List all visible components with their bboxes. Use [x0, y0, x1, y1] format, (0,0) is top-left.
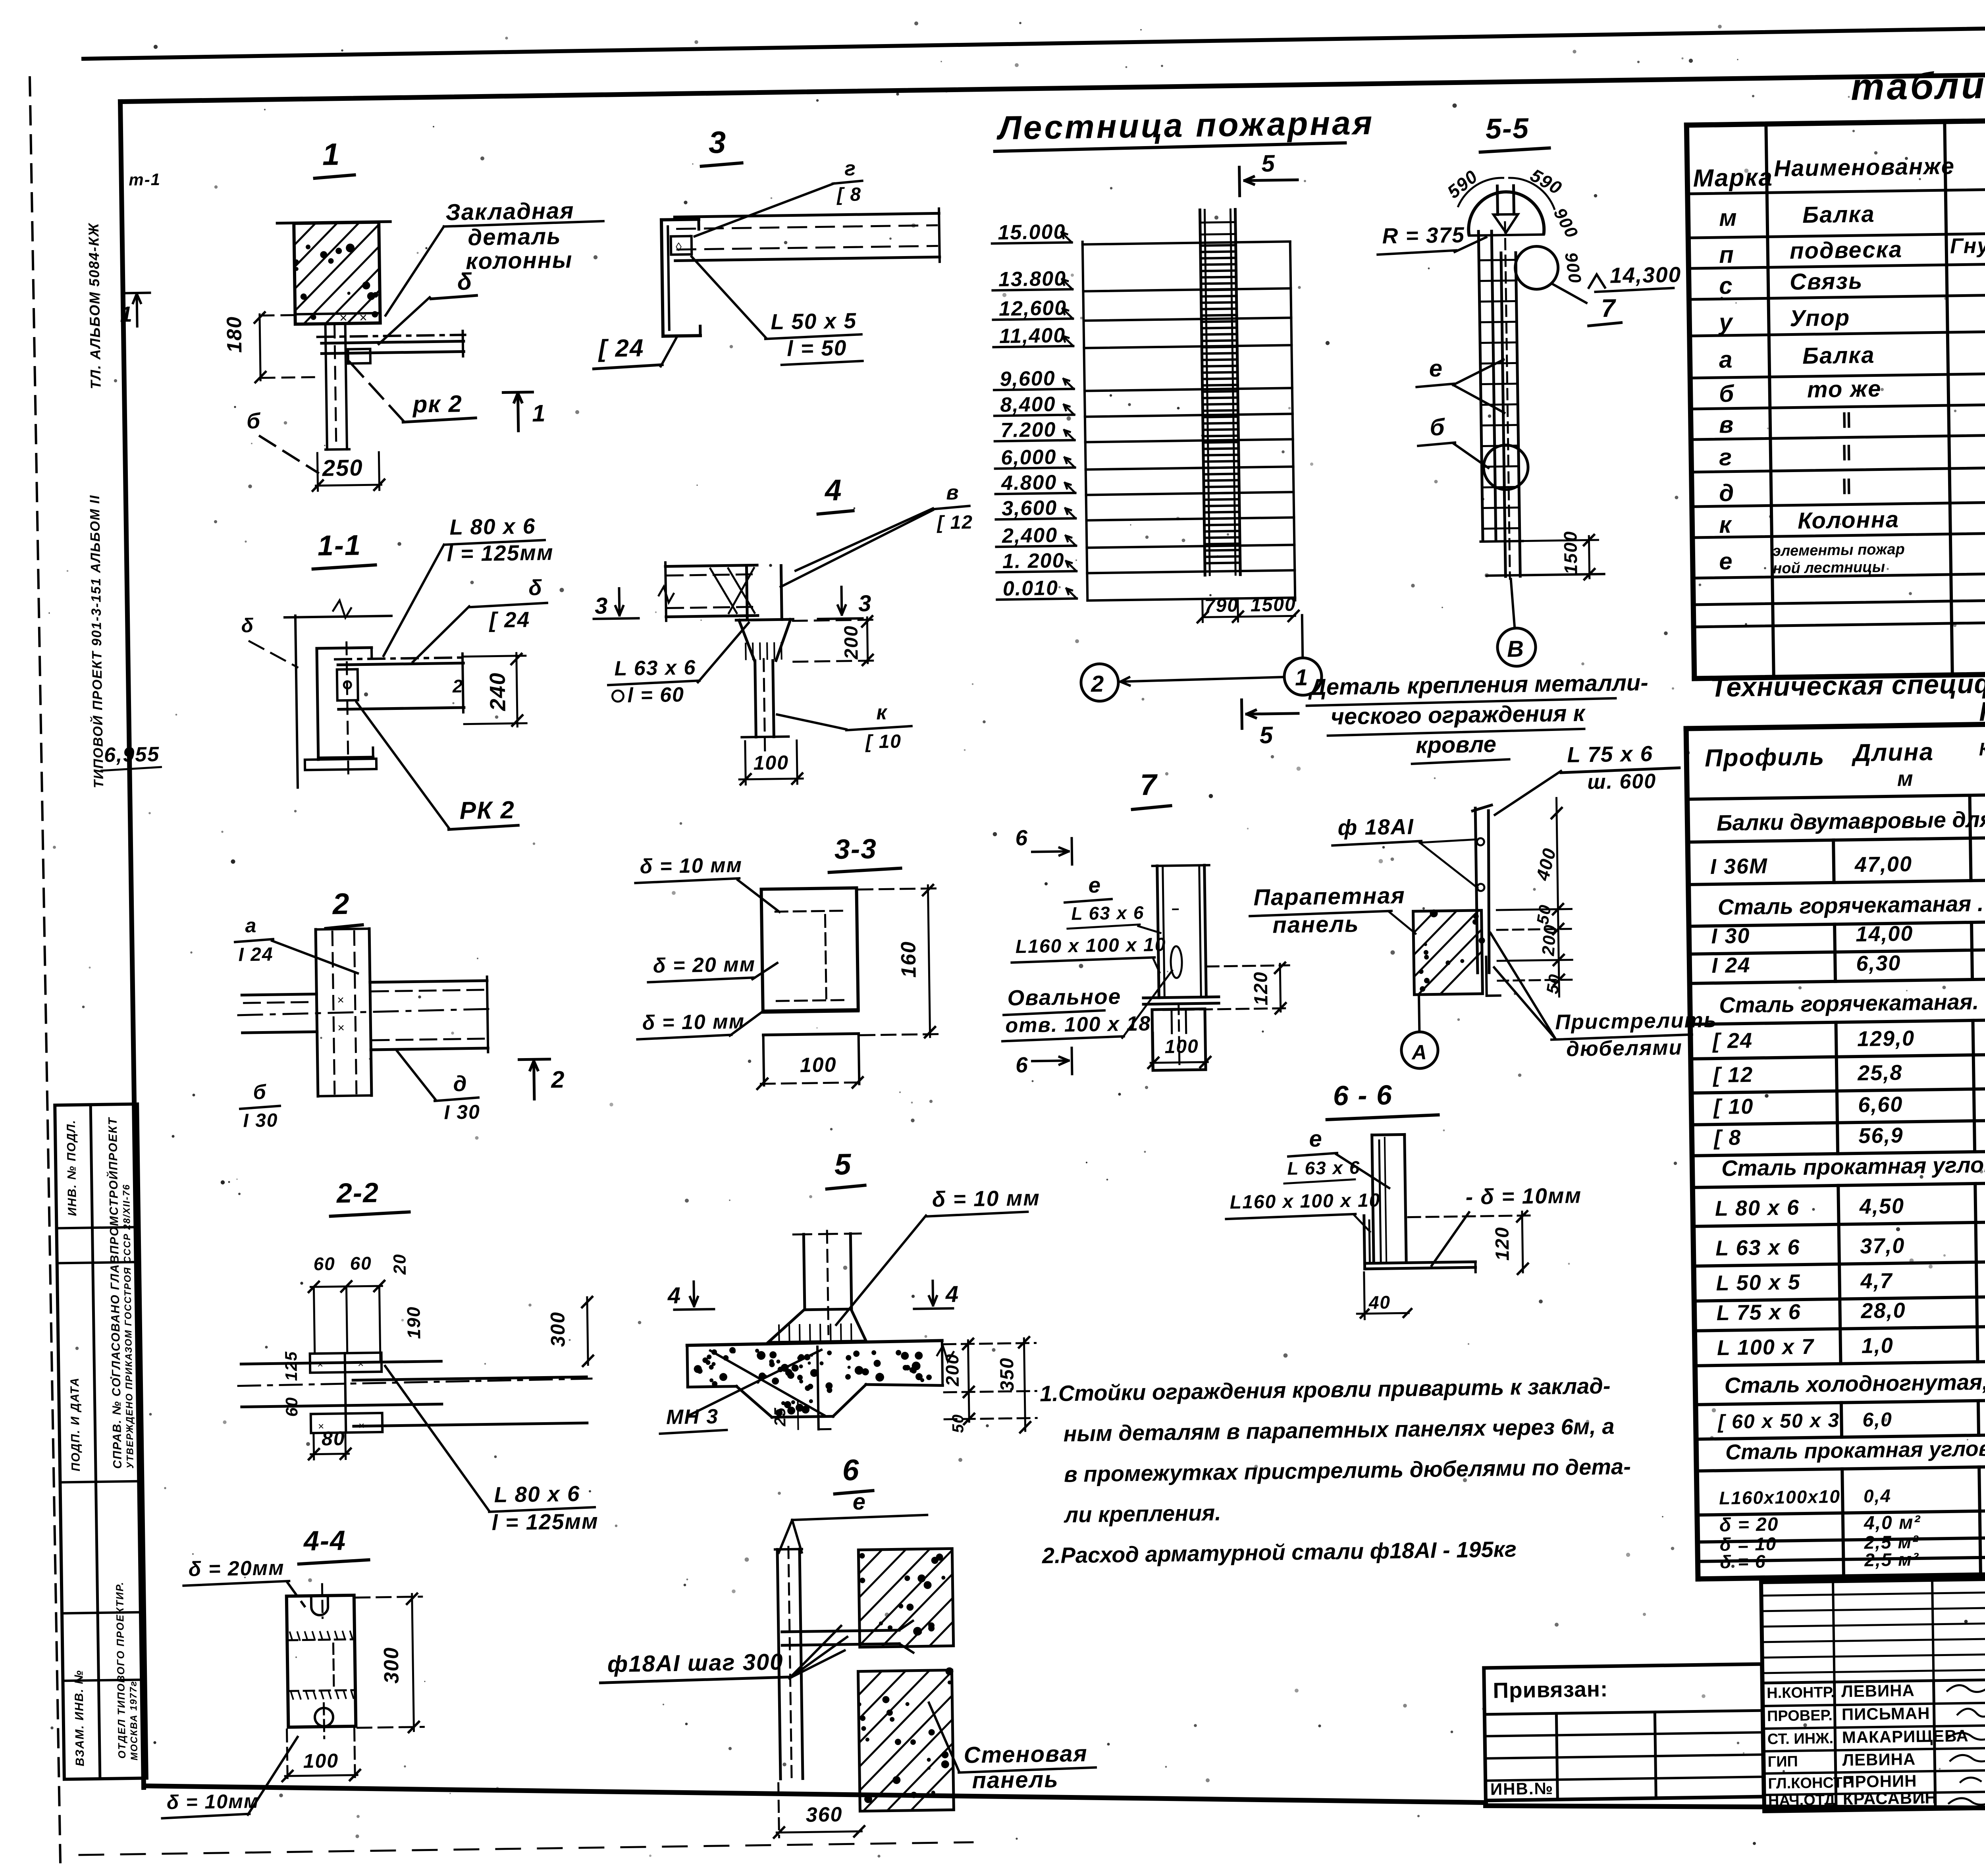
svg-text:[ 24: [ 24 [488, 607, 530, 632]
svg-text:60: 60 [282, 1396, 301, 1417]
frame top line [120, 67, 1985, 102]
detail 5-5 label e [1416, 354, 1504, 414]
detail A upright bar L75x6 [1472, 805, 1500, 996]
detail 2-2 rotated dims left [281, 1351, 301, 1417]
svg-text:×: × [337, 994, 345, 1007]
detail 5 dims right [941, 1337, 1037, 1433]
svg-text:б: б [1719, 380, 1735, 407]
detail 5-5 arc dims 590 900 [1443, 164, 1585, 287]
detail 5-5 bottom lines [1480, 530, 1604, 581]
svg-text:1: 1 [1295, 665, 1309, 690]
svg-text:25: 25 [771, 1407, 789, 1427]
detail 1 label delta [378, 268, 477, 344]
detail 2 left beam [242, 994, 317, 1033]
detail 7 label oval hole [1002, 970, 1173, 1041]
svg-text:×: × [317, 1358, 324, 1370]
svg-text:РК 2: РК 2 [459, 796, 515, 825]
svg-text:м: м [1719, 204, 1738, 231]
detail 1-1 left edge and top line [284, 600, 394, 788]
detail 5 column [793, 1230, 862, 1334]
detail 1 beam [318, 331, 466, 358]
detail 3-3 label delta20 [648, 952, 777, 982]
detail 2 title [325, 887, 362, 928]
detail 6-6 upright angle [1372, 1134, 1406, 1263]
svg-text:6,30: 6,30 [1856, 951, 1901, 976]
svg-text:L 63 х 6: L 63 х 6 [1071, 902, 1145, 924]
svg-text:120: 120 [1492, 1226, 1513, 1261]
svg-text:L 63 x 6: L 63 x 6 [614, 656, 696, 680]
svg-text:Стеновая: Стеновая [964, 1741, 1088, 1768]
detail 4-4 label delta20 [183, 1556, 304, 1608]
svg-text:56,9: 56,9 [1858, 1123, 1904, 1148]
svg-text:25,8: 25,8 [1857, 1060, 1903, 1085]
table 2 data rows [1709, 843, 1985, 1572]
title block form grid [1761, 1571, 1985, 1811]
left margin stamp upper [85, 170, 164, 389]
detail 4 section mark 3 left [593, 588, 638, 619]
svg-text:Пристрелить: Пристрелить [1555, 1008, 1717, 1034]
svg-text:60: 60 [313, 1253, 335, 1274]
svg-text:ной лестницы: ной лестницы [1773, 559, 1885, 577]
ladder left stringer line [1083, 242, 1088, 600]
svg-text:Балка: Балка [1802, 201, 1875, 228]
svg-text:47,00: 47,00 [1854, 852, 1912, 877]
svg-text:ЛЕВИНА: ЛЕВИНА [1841, 1681, 1915, 1701]
svg-text:ПРОНИН: ПРОНИН [1842, 1772, 1917, 1791]
svg-text:3,600: 3,600 [1002, 496, 1058, 520]
svg-text:[ 8: [ 8 [836, 184, 862, 205]
svg-text:7.200: 7.200 [1000, 418, 1056, 442]
detail 1 hanger below [324, 323, 372, 450]
svg-text:к: к [1719, 511, 1733, 538]
svg-text:5: 5 [1261, 150, 1276, 177]
svg-text:Гнутый профиль: Гнутый профиль [1950, 231, 1985, 258]
detail 2-2 title [330, 1177, 409, 1217]
frame left line [120, 102, 144, 1787]
table 2 header text [1704, 729, 1985, 793]
svg-text:ПОДП. И ДАТА: ПОДП. И ДАТА [68, 1377, 83, 1471]
svg-text:‖: ‖ [1841, 475, 1853, 499]
detail 5-5 circle V [1497, 578, 1536, 666]
svg-text:ГИП: ГИП [1767, 1753, 1798, 1770]
detail A dims right [1495, 798, 1573, 997]
svg-text:δ = 10 мм: δ = 10 мм [640, 854, 742, 878]
detail 3 bolt plate [671, 236, 692, 255]
detail 5-5 label b circle [1418, 413, 1488, 469]
detail 4 dim 200 [793, 616, 878, 666]
ladder axis circle 1 [1284, 657, 1322, 695]
detail 5 dim 25 [771, 1402, 798, 1430]
detail 6 ladder channel [775, 1547, 805, 1782]
svg-text:е: е [1719, 548, 1733, 575]
detail 6-6 title [1326, 1079, 1438, 1120]
svg-text:у: у [1718, 309, 1734, 336]
svg-text:колонны: колонны [466, 247, 573, 274]
svg-text:4.800: 4.800 [1001, 471, 1057, 495]
svg-text:2: 2 [551, 1066, 565, 1093]
detail 5 label delta10 [834, 1186, 1042, 1325]
detail 5-5 hoop arc [1468, 191, 1544, 235]
detail 2-2 dims 60 60 20 [308, 1252, 411, 1363]
table 1 row d [1719, 451, 1985, 506]
svg-text:СТ. ИНЖ.: СТ. ИНЖ. [1767, 1730, 1834, 1748]
detail A parapet panel [1413, 909, 1486, 995]
svg-text:2,5 м²: 2,5 м² [1864, 1549, 1919, 1570]
detail 1-1 dim 240 [452, 653, 527, 728]
svg-text:δ: δ [241, 614, 254, 636]
detail 6-6 base angle [1364, 1214, 1476, 1274]
detail 1 label rk2 [349, 360, 476, 423]
detail 2 label d I30 [397, 1050, 480, 1124]
svg-text:‖: ‖ [1841, 441, 1853, 465]
detail 2 section mark 2 [519, 1059, 565, 1099]
svg-text:6,60: 6,60 [1858, 1092, 1903, 1117]
svg-text:15.000: 15.000 [998, 220, 1066, 244]
detail 2 vertical member [316, 929, 372, 1096]
svg-text:4,50: 4,50 [1859, 1194, 1904, 1219]
detail 1-1 label L80x6 l=125 [382, 513, 555, 656]
svg-text:Профиль: Профиль [1705, 743, 1825, 772]
svg-text:180: 180 [223, 316, 246, 353]
svg-text:3: 3 [708, 125, 727, 160]
svg-text:[ 10: [ 10 [865, 731, 902, 752]
svg-text:[ 12: [ 12 [936, 512, 973, 533]
svg-text:ЛЕВИНА: ЛЕВИНА [1842, 1750, 1916, 1770]
svg-text:Кол-во: Кол-во [1979, 738, 1985, 760]
table 1 row k [1719, 492, 1985, 538]
svg-text:L160 х 100 х 10: L160 х 100 х 10 [1015, 934, 1166, 957]
svg-text:7: 7 [1601, 294, 1617, 323]
svg-text:L 80 х 6: L 80 х 6 [1715, 1195, 1800, 1220]
svg-text:200: 200 [840, 625, 862, 660]
svg-text:г: г [1719, 444, 1733, 470]
svg-text:50: 50 [949, 1413, 967, 1433]
detail 2-2 dim 190 right [403, 1306, 424, 1339]
svg-text:300: 300 [380, 1647, 403, 1684]
ladder right stringer line [1290, 242, 1295, 600]
svg-text:2-2: 2-2 [335, 1177, 379, 1209]
table 1 title tablitsa secheniy [1850, 61, 1985, 108]
detail 3-3 label delta10 top [635, 853, 779, 914]
svg-text:6,955: 6,955 [104, 743, 160, 767]
heading detail krepleniya [1307, 670, 1650, 765]
detail 1 dim 180 [223, 312, 318, 383]
detail 3 label L50x5 [692, 254, 863, 366]
svg-text:ПИСЬМАН: ПИСЬМАН [1842, 1704, 1930, 1724]
svg-text:б: б [247, 409, 261, 433]
svg-text:1: 1 [120, 302, 133, 326]
svg-text:ческого ограждения к: ческого ограждения к [1331, 700, 1586, 730]
svg-text:КРАСАВИН: КРАСАВИН [1843, 1788, 1937, 1808]
svg-text:деталь: деталь [468, 223, 561, 250]
svg-text:1: 1 [322, 137, 341, 172]
svg-text:L160 х 100 х 10: L160 х 100 х 10 [1230, 1190, 1380, 1213]
svg-text:50: 50 [1543, 972, 1565, 995]
svg-text:9,600: 9,600 [1000, 367, 1056, 391]
svg-text:3-3: 3-3 [834, 833, 877, 865]
detail 4-4 plate [286, 1584, 356, 1739]
svg-text:е: е [1088, 873, 1101, 897]
svg-text:е: е [852, 1489, 866, 1515]
svg-text:[ 10: [ 10 [1713, 1095, 1754, 1119]
svg-text:[ 8: [ 8 [1713, 1126, 1742, 1150]
svg-text:I 30: I 30 [1711, 924, 1750, 948]
spec title line 1 [1710, 663, 1985, 703]
detail 5-5 marker circle [1483, 445, 1528, 490]
svg-text:350: 350 [996, 1357, 1018, 1392]
svg-text:R = 375: R = 375 [1382, 222, 1465, 248]
table 1 row e [1719, 529, 1985, 578]
svg-text:6 - 6: 6 - 6 [1333, 1080, 1393, 1111]
detail 1 title [314, 137, 354, 178]
svg-text:100: 100 [303, 1749, 339, 1772]
svg-text:2: 2 [331, 887, 350, 921]
svg-text:В: В [1507, 636, 1525, 662]
detail 6 title [834, 1453, 873, 1494]
detail 6 rail to wall [782, 1621, 913, 1654]
detail 3 beam [675, 208, 940, 265]
table 1 row s [1719, 250, 1985, 299]
detail 7 parapet base [1152, 1003, 1206, 1070]
svg-text:×: × [358, 1419, 366, 1431]
svg-text:подвеска: подвеска [1790, 237, 1903, 264]
detail 4 label v C12 [779, 481, 974, 587]
svg-text:129,0: 129,0 [1857, 1026, 1915, 1051]
svg-text:п: п [1719, 241, 1735, 268]
svg-text:ВЗАМ. ИНВ. №: ВЗАМ. ИНВ. № [72, 1670, 87, 1766]
svg-text:δ = 20мм: δ = 20мм [188, 1556, 285, 1581]
svg-text:L 63 х 6: L 63 х 6 [1715, 1235, 1800, 1260]
detail 2-2 splice plates [310, 1353, 383, 1433]
table 2 section headers text [1716, 800, 1985, 1464]
detail 1 label b and leader [247, 408, 318, 474]
detail 1 label zakladnaya detal kolonny [384, 197, 605, 316]
svg-text:125: 125 [281, 1351, 301, 1381]
detail 5-5 label R375 [1377, 222, 1486, 255]
section mark 5 near heading [1241, 699, 1299, 749]
svg-text:б: б [253, 1081, 267, 1104]
svg-text:×: × [358, 1357, 365, 1369]
table 2 grid [1686, 717, 1985, 1579]
detail 4 dim 100 bottom [739, 740, 803, 785]
detail 4 beam [658, 561, 758, 621]
svg-text:г: г [844, 157, 857, 180]
svg-text:1-1: 1-1 [317, 529, 361, 562]
detail 1 embedded plate marks [339, 310, 368, 326]
ladder axis link arrow [1120, 615, 1303, 686]
detail 3-3 label delta10 bottom [637, 1010, 763, 1039]
svg-text:×: × [359, 310, 368, 325]
svg-text:L 100 х 7: L 100 х 7 [1717, 1335, 1815, 1360]
svg-text:L 75 х 6: L 75 х 6 [1716, 1300, 1801, 1325]
detail 5 section mark 4 right [913, 1280, 959, 1309]
svg-text:160: 160 [897, 941, 920, 978]
svg-text:1,0: 1,0 [1861, 1334, 1894, 1358]
svg-text:НАЧ.ОТД: НАЧ.ОТД [1768, 1791, 1835, 1809]
detail 1-1 title [312, 529, 375, 569]
svg-text:Балка: Балка [1802, 342, 1875, 369]
svg-text:Лестница пожарная: Лестница пожарная [996, 104, 1374, 147]
svg-text:к: к [876, 701, 888, 724]
ladder title [994, 104, 1374, 151]
svg-text:ф18АΙ шаг 300: ф18АΙ шаг 300 [607, 1649, 783, 1677]
table 1 grid [1686, 107, 1985, 679]
notes text block [1039, 1373, 1632, 1568]
detail 7 section mark 6 bottom [1016, 1048, 1072, 1077]
detail 7 dim 100 [1148, 1032, 1210, 1068]
svg-text:4: 4 [667, 1282, 681, 1308]
detail 5 slab with stipple [687, 1340, 955, 1431]
svg-text:δ = 10 мм: δ = 10 мм [932, 1186, 1040, 1212]
detail 5 section mark 4 left [667, 1281, 714, 1310]
svg-text:ОТДЕЛ ТИПОВОГО ПРОЕКТИР.: ОТДЕЛ ТИПОВОГО ПРОЕКТИР. [114, 1581, 128, 1759]
svg-text:1. 200: 1. 200 [1002, 549, 1065, 573]
detail 5-5 elevation 14300 [1588, 262, 1681, 292]
svg-text:I 30: I 30 [243, 1110, 278, 1131]
svg-text:1500: 1500 [1560, 530, 1581, 575]
svg-text:ИНВ.№: ИНВ.№ [1490, 1779, 1554, 1798]
svg-text:80: 80 [322, 1427, 345, 1450]
detail A label parapetnaya panel [1249, 883, 1416, 939]
svg-text:2: 2 [1091, 671, 1105, 697]
svg-text:δ = 6: δ = 6 [1720, 1551, 1766, 1572]
svg-text:50: 50 [1533, 903, 1555, 926]
svg-text:360: 360 [806, 1803, 843, 1826]
svg-text:L 80 x 6: L 80 x 6 [494, 1481, 580, 1507]
svg-text:ТЛ. АЛЬБОМ 5084-КЖ: ТЛ. АЛЬБОМ 5084-КЖ [85, 222, 104, 389]
detail 2-2 lower beam [353, 1377, 587, 1426]
detail 2-2 dim 300 right [546, 1297, 593, 1367]
detail 2 centerline [238, 1009, 494, 1015]
ladder elevation labels [992, 220, 1077, 601]
page margin bottom outer dashed line [79, 1842, 973, 1855]
svg-text:элементы пожар: элементы пожар [1773, 541, 1905, 560]
svg-text:×: × [339, 310, 348, 326]
detail 4-4 dim 100 [282, 1729, 360, 1782]
svg-text:l = 50: l = 50 [787, 335, 847, 361]
detail 6 wall panel upper [858, 1548, 953, 1647]
detail 1 concrete column [277, 222, 392, 324]
svg-text:60: 60 [350, 1253, 372, 1274]
svg-text:[ 24: [ 24 [1712, 1029, 1753, 1053]
svg-text:δ = 10мм: δ = 10мм [167, 1790, 260, 1813]
svg-text:L 63 х 6: L 63 х 6 [1287, 1157, 1361, 1179]
detail 3 label C24 [593, 334, 677, 369]
svg-text:4,7: 4,7 [1860, 1269, 1893, 1293]
svg-text:200: 200 [1538, 924, 1560, 957]
detail 7 label e L63 [1064, 872, 1160, 934]
detail 3-3 dim 160 [858, 885, 939, 1039]
svg-text:240: 240 [485, 672, 510, 711]
svg-text:190: 190 [403, 1306, 424, 1339]
table 1 row p [1719, 218, 1985, 268]
detail 6-6 dim 40 [1357, 1272, 1412, 1319]
detail 6-6 label e L63 [1284, 1125, 1389, 1190]
svg-text:I 30: I 30 [444, 1101, 480, 1123]
detail 7 section mark 6 top [1015, 825, 1072, 865]
detail 5-5 title [1480, 112, 1549, 152]
detail 4-4 label delta10 [161, 1737, 299, 1818]
ladder platform lines [1083, 241, 1295, 600]
svg-text:Привязан:: Привязан: [1493, 1677, 1608, 1703]
detail 6-6 label delta10 [1430, 1183, 1582, 1265]
svg-text:ГЛ.КОНСТР: ГЛ.КОНСТР [1768, 1774, 1853, 1792]
svg-text:13.800: 13.800 [998, 267, 1067, 291]
detail 7 dim 120 [1163, 962, 1290, 1015]
svg-text:1500: 1500 [1251, 594, 1297, 616]
ladder rails and rungs [1200, 209, 1240, 575]
svg-text:ш. 600: ш. 600 [1587, 770, 1657, 794]
svg-text:д: д [1719, 480, 1735, 507]
page margin left outer dashed line [30, 77, 60, 1862]
svg-text:790: 790 [1204, 595, 1239, 616]
svg-text:6,000: 6,000 [1001, 445, 1057, 469]
svg-text:рк 2: рк 2 [412, 390, 463, 418]
svg-text:◊: ◊ [676, 241, 682, 254]
svg-text:4: 4 [945, 1281, 959, 1307]
svg-text:I 36М: I 36М [1710, 854, 1768, 879]
detail 7 post [1152, 865, 1211, 998]
detail 4 label k C10 [777, 701, 912, 754]
svg-text:L 80 x 6: L 80 x 6 [449, 514, 536, 540]
svg-text:Марка: Марка [1693, 164, 1773, 192]
table 1 row g [1719, 425, 1985, 470]
svg-text:Упор: Упор [1790, 305, 1850, 331]
svg-text:37,0: 37,0 [1860, 1234, 1905, 1258]
svg-text:20: 20 [390, 1253, 410, 1275]
svg-text:0.010: 0.010 [1002, 576, 1058, 600]
detail 1-1 label RK2 [357, 700, 518, 831]
table 1 row u [1717, 289, 1985, 335]
detail 1 dim 250 [312, 452, 384, 491]
table 1 row a [1719, 321, 1985, 373]
svg-text:4-4: 4-4 [303, 1525, 346, 1557]
detail 2-2 dim 80 bottom [308, 1427, 351, 1459]
svg-text:а: а [245, 914, 257, 937]
frame outer top line [83, 20, 1985, 59]
svg-text:200: 200 [942, 1353, 963, 1386]
svg-text:Колонна: Колонна [1798, 507, 1900, 534]
svg-text:отв. 100 х 18: отв. 100 х 18 [1005, 1012, 1151, 1037]
svg-text:3: 3 [595, 593, 609, 619]
svg-text:I 24: I 24 [1711, 953, 1751, 978]
svg-text:100: 100 [753, 751, 789, 774]
title block privyazan box [1484, 1664, 1764, 1801]
svg-text:таблица сечений.: таблица сечений. [1850, 61, 1985, 108]
detail 7 base plates [1143, 997, 1219, 1005]
svg-text:δ: δ [457, 268, 473, 295]
detail 4 label L63x6 l60 [607, 623, 750, 708]
ladder bottom dims 790 1500 [1197, 594, 1299, 623]
svg-text:14,00: 14,00 [1856, 922, 1914, 946]
frame bottom line [144, 1786, 1985, 1810]
detail 1-1 beam [335, 654, 465, 714]
detail 4-4 dim 300 [356, 1593, 424, 1733]
svg-text:в: в [1719, 411, 1734, 438]
detail 1 section mark 1 left [119, 293, 150, 326]
svg-text:Связь: Связь [1790, 268, 1863, 295]
svg-text:5-5: 5-5 [1485, 112, 1529, 145]
left margin stamp middle [87, 495, 106, 789]
detail 2-2 label L80x6 l125 [385, 1363, 599, 1536]
svg-text:L 50 х 5: L 50 х 5 [1716, 1270, 1801, 1295]
detail A label L75x6 [1494, 741, 1680, 815]
detail 3 label g C8 [694, 157, 863, 236]
svg-text:×: × [337, 1021, 345, 1034]
detail 3-3 title [829, 833, 900, 873]
detail A label f18A [1332, 813, 1478, 890]
detail 4-4 title [298, 1525, 368, 1564]
